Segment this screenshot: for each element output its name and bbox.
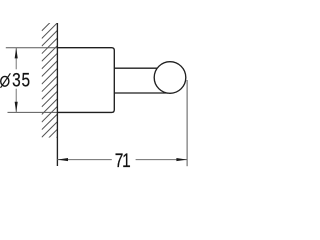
svg-text:5: 5 bbox=[22, 69, 31, 91]
wall hatching bbox=[42, 15, 58, 152]
flange (escutcheon) bbox=[57, 48, 114, 113]
extension line bottom (Ø35) bbox=[8, 111, 58, 113]
dimension line 71 (horizontal) bbox=[57, 159, 187, 161]
stem bottom line bbox=[114, 92, 168, 94]
extension line top (Ø35) bbox=[6, 47, 58, 49]
dimension line Ø35 (vertical) bbox=[15, 48, 17, 113]
extension line right (71) bbox=[186, 80, 188, 166]
wall face line bbox=[56, 23, 58, 166]
label Ø35 bbox=[1, 73, 11, 88]
arrow left (71) bbox=[57, 158, 68, 161]
arrow up (Ø35 top) bbox=[15, 48, 18, 59]
stem top line bbox=[114, 67, 160, 69]
arrow right (71) bbox=[176, 158, 187, 161]
arrow down (Ø35 bottom) bbox=[15, 102, 18, 113]
ball knob bbox=[154, 62, 186, 94]
svg-text:1: 1 bbox=[122, 149, 131, 171]
svg-text:3: 3 bbox=[12, 69, 21, 91]
